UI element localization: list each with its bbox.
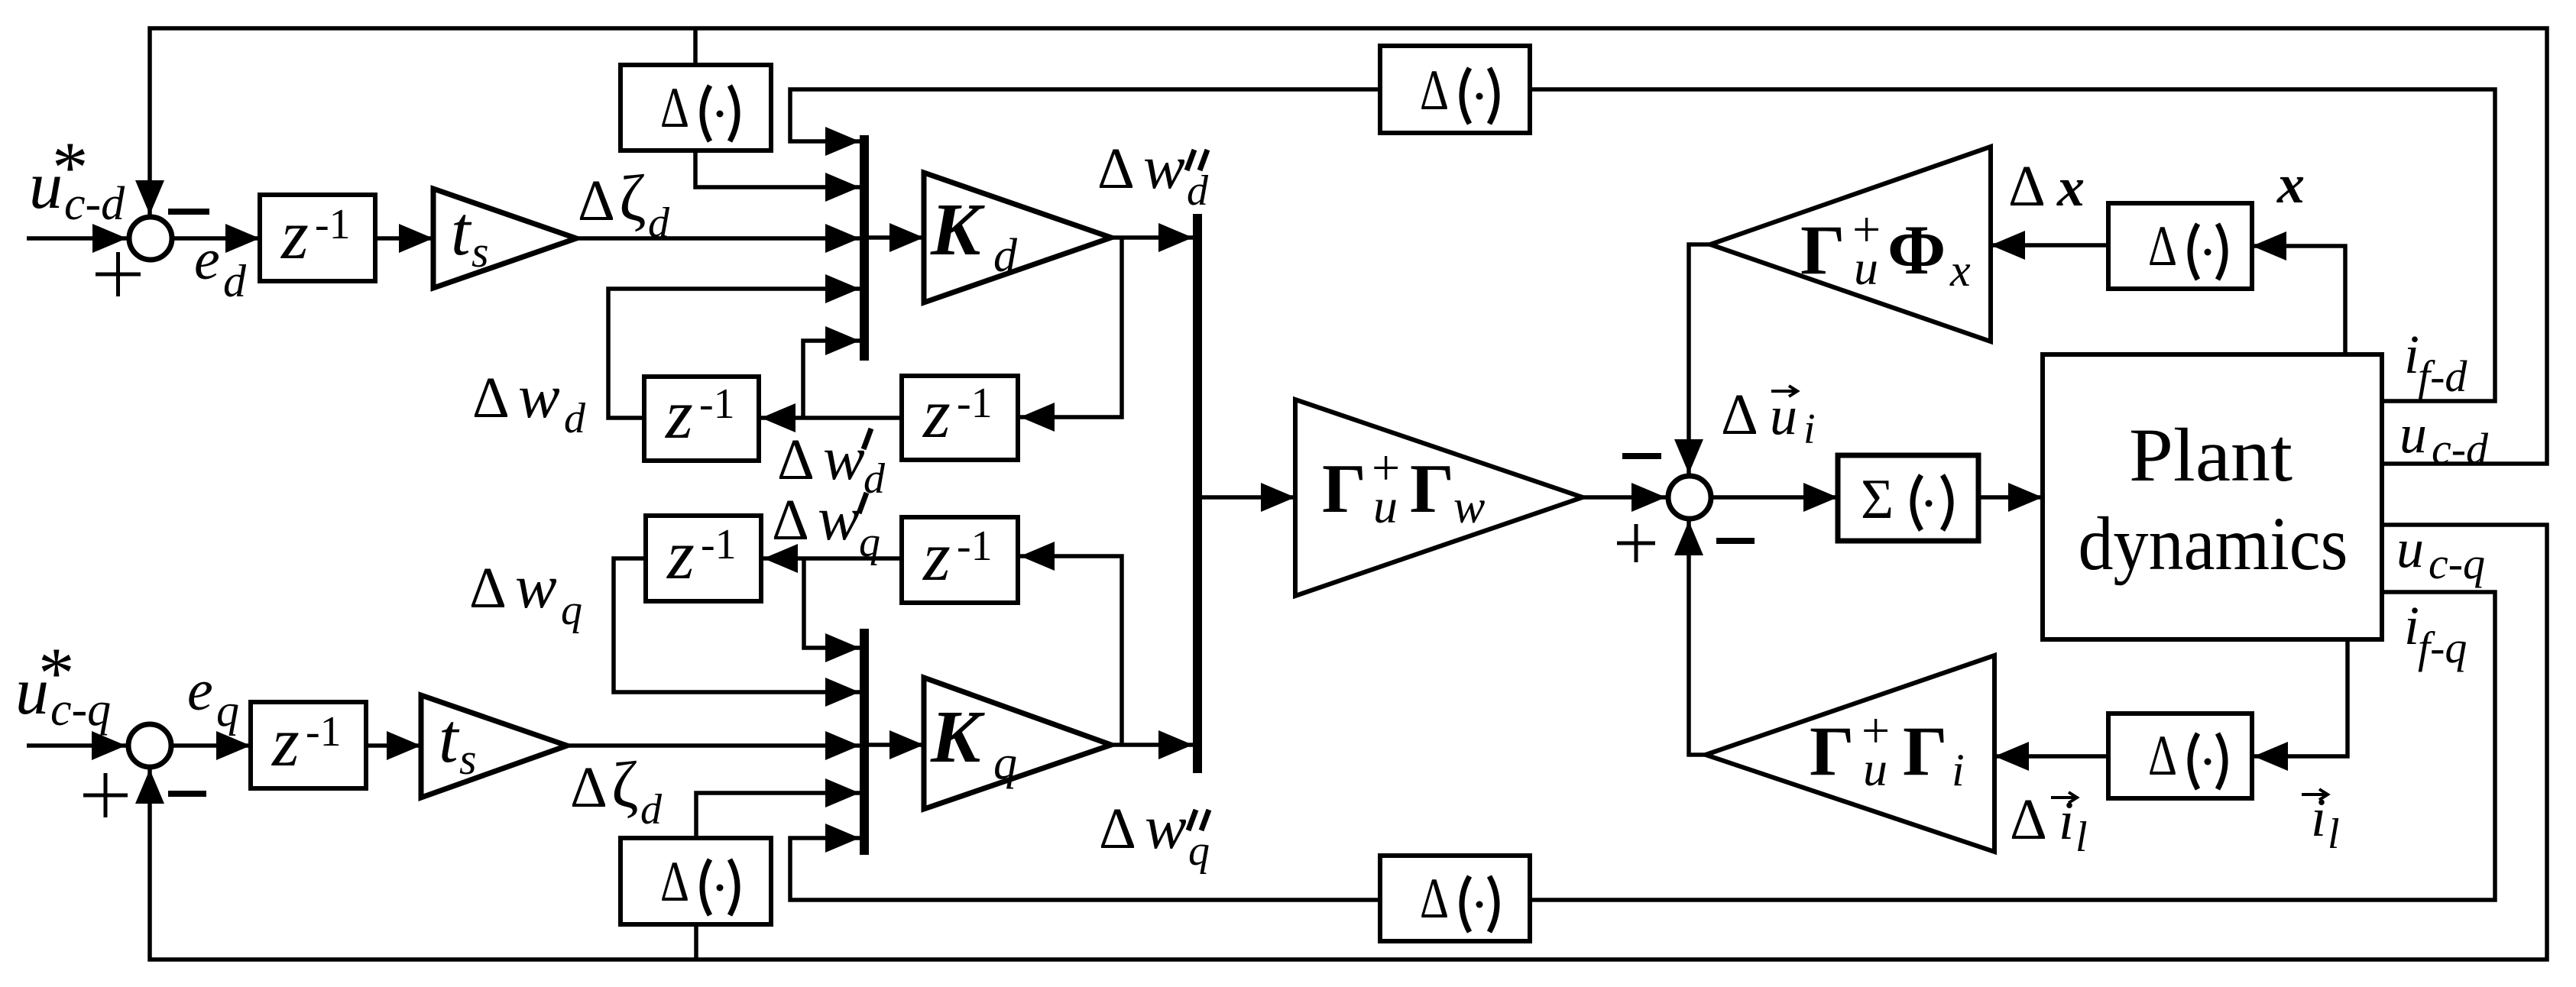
svg-text:d: d [640,786,663,833]
svg-text:Γ: Γ [1810,712,1855,790]
summing junction S3 [1668,476,1711,519]
wire bus3 to Kq [869,743,924,747]
svg-text:z: z [922,517,951,595]
svg-text:u: u [2396,518,2424,579]
svg-text:Γ: Γ [1322,450,1366,527]
wire i_l from plant bottom to D4 [2254,639,2348,756]
wire Phi-x output down to S3 carrying delta-x [1689,244,1710,474]
wire input u*c-q [27,743,126,748]
node bus1 top mixing bar [860,135,869,361]
gain Kd [924,173,1111,303]
svg-text:z: z [664,375,693,453]
svg-text:-1: -1 [701,521,737,568]
label i_f-d [2404,324,2467,401]
svg-text:Δ: Δ [660,850,689,914]
svg-text:i: i [2404,595,2419,656]
svg-text:w: w [518,361,560,431]
svg-text:q: q [859,519,880,566]
svg-text:Δ: Δ [1097,137,1135,201]
label delta-w-q [469,552,582,634]
svg-text:u: u [1373,479,1398,533]
summing junction S2 [128,724,171,767]
wire junction of Z3 output up to bus1 carrying delta-w'-d [803,341,860,418]
svg-text:q: q [216,685,239,736]
svg-text:Δ: Δ [1420,59,1449,122]
svg-text:c-q: c-q [2429,539,2485,588]
label x from plant [2276,154,2305,215]
delta block D4 bottom-right [2108,714,2252,798]
svg-text:s: s [459,734,477,784]
label i_f-q [2404,595,2467,672]
label delta-w'-d [777,423,886,503]
svg-text:l: l [2328,811,2340,858]
wire Z1 to T1 [375,236,433,241]
svg-text:z: z [280,196,309,273]
wire Gamma-i output up to S3 carrying delta-i_l [1689,521,1706,755]
wire Z5 to Z4 [763,556,902,561]
svg-text:e: e [194,228,220,292]
svg-text:Δ: Δ [469,556,507,620]
svg-text:d: d [993,230,1018,282]
svg-text:q: q [1188,827,1210,875]
sign minus bottom at S3 [1716,538,1755,544]
svg-text:Δ: Δ [2008,154,2046,218]
svg-text:dynamics: dynamics [2079,501,2348,586]
svg-text:x: x [2056,157,2085,218]
label e_q [187,659,239,736]
svg-text:Δ: Δ [1721,383,1758,447]
label e_d [194,228,247,306]
wire T1 to bus1 carrying delta-zeta-d [576,236,860,241]
svg-text:d: d [648,199,670,247]
wire D2 to bus1 [790,89,1380,141]
svg-text:x: x [2276,154,2305,215]
svg-text:u: u [1854,241,1878,295]
wire D4 to Gamma-i triangle [1994,754,2108,759]
wire Kq feedback up to Z5 [1020,556,1122,745]
svg-text:t: t [439,699,460,777]
wire D1 to bus1 [695,150,860,187]
sign minus top at S3 [1622,453,1661,459]
svg-text:-1: -1 [957,380,993,427]
svg-text:c-q: c-q [50,684,111,736]
svg-text:Φ: Φ [1887,211,1946,289]
label delta-w-d [472,361,586,442]
svg-text:ζ: ζ [619,161,646,235]
svg-text:s: s [471,227,489,277]
delta block D1 top-left [621,65,771,150]
wire u_c-d feedback from plant to S1 [150,28,2547,464]
svg-text:u: u [2399,403,2427,464]
svg-text:Γ: Γ [1800,211,1845,289]
svg-text:Δ: Δ [660,76,689,140]
wire tap from bottom feedback into D6 [694,924,698,958]
svg-text:Δ: Δ [472,366,510,430]
wire Z3 to Z2 [761,416,902,420]
label u*_c-q [15,633,111,736]
wire T2 to bus3 carrying delta-zeta-d lower [567,743,860,748]
wire Z6 to T2 [366,743,421,748]
svg-text:Δ: Δ [777,428,815,492]
wire Kq to bus2 carrying delta-w''-q [1111,743,1193,747]
delay block Z2 z^-1 [644,375,759,461]
svg-text:f-q: f-q [2418,623,2467,672]
label u*_c-d [29,127,125,230]
label delta-w'-q [772,484,880,566]
sign plus at S2 [83,773,128,817]
label delta-u_i vector [1721,383,1816,453]
gain T1 t_s [433,189,576,288]
svg-text:Δ: Δ [1420,867,1449,930]
svg-text:Plant: Plant [2129,413,2292,497]
svg-text:-1: -1 [699,380,735,428]
delay block Z1 z^-1 [260,195,375,281]
wire bus1 to Kd [869,235,924,240]
svg-text:ζ: ζ [611,748,639,821]
svg-text:w: w [515,552,557,621]
svg-text:t: t [451,192,472,270]
delay block Z6 z^-1 [251,702,366,788]
svg-text:w: w [1145,792,1187,862]
delta block D5 bottom-center [1380,856,1530,941]
svg-text:w: w [1143,132,1185,202]
svg-text:Δ: Δ [2148,724,2177,788]
svg-text:x: x [1949,245,1971,296]
svg-text:c-d: c-d [2432,424,2489,474]
label delta-zeta-d lower [570,748,663,833]
svg-text:d: d [1187,167,1209,215]
delta block D3 mid-right [2108,203,2252,289]
svg-text:-1: -1 [315,201,351,248]
svg-text:K: K [930,696,985,778]
svg-text:d: d [223,256,247,306]
svg-text:q: q [561,587,582,634]
node bus2 center bar [1193,214,1202,773]
svg-text:u: u [1863,742,1887,796]
gain T2 t_s [421,695,567,798]
wire D3 to Phi-x [1991,243,2108,248]
svg-text:Δ: Δ [1099,797,1136,861]
label u_c-d [2399,403,2489,474]
node bus3 bottom mixing bar [860,629,869,855]
sign plus at S3 [1617,524,1655,562]
svg-text:Σ: Σ [1861,468,1894,531]
svg-text:z: z [666,516,695,594]
svg-text:f-d: f-d [2418,351,2467,401]
wire bus2 to Gamma-w triangle [1202,495,1295,500]
svg-text:Δ: Δ [772,488,809,552]
wire i_f-q from plant to D5 [1530,592,2495,900]
block Plant dynamics [2043,354,2382,639]
gain Gamma_u+Gamma_i [1706,655,1994,852]
svg-text:-1: -1 [306,708,342,756]
wire i_f-d from plant to D2 [1530,89,2495,401]
delay block Z3 z^-1 [902,374,1018,460]
label i_l vector [2302,787,2340,858]
wire junction of Z5 output down to bus3 carrying delta-w'-q [804,558,860,648]
wire S3 to Sigma carrying delta-u_i [1713,495,1838,500]
wire D5 to bus3 [790,838,1380,900]
svg-text:c-d: c-d [64,178,125,230]
label delta-i_l vector [2010,788,2088,861]
svg-text:-1: -1 [957,523,993,570]
wire S2 to Z6 [173,743,251,748]
gain Gamma_u+Gamma_w [1295,400,1583,596]
svg-text:d: d [564,395,586,442]
label delta-w''-q [1099,792,1210,875]
svg-text:i: i [1952,745,1965,795]
label delta-x [2008,154,2085,218]
svg-text:Δ: Δ [570,756,608,820]
wire Z2 output up to bus1 carrying delta-w-d [608,289,860,418]
svg-text:w: w [1453,481,1485,533]
svg-text:i: i [2404,324,2419,385]
svg-text:K: K [930,189,985,271]
delay block Z5 z^-1 [902,517,1018,603]
svg-text:Γ: Γ [1903,712,1948,790]
wire Gamma-w to S3 [1583,495,1666,500]
svg-text:z: z [271,703,300,781]
wire Kd feedback down to Z3 [1020,238,1122,417]
wire Sigma to plant [1978,495,2043,500]
svg-text:Δ: Δ [578,169,615,233]
wire S1 to Z1 [174,236,260,241]
svg-text:z: z [922,374,951,452]
sign minus at S2 [168,791,206,797]
svg-text:l: l [2075,814,2088,861]
svg-text:w: w [818,484,860,553]
svg-text:Δ: Δ [2010,788,2047,852]
wire tap from top feedback into D1 [693,30,698,65]
block Sigma [1838,455,1978,541]
gain Kq [924,678,1111,809]
label delta-zeta-d upper [578,161,670,247]
wire input u*c-d [27,236,127,241]
gain Gamma_u+Phi_x [1710,147,1991,341]
delta block D2 top-right [1380,46,1530,133]
svg-text:Δ: Δ [2148,215,2177,278]
svg-text:w: w [823,423,865,493]
summing junction S1 [129,217,172,260]
wire Kd to bus2 carrying delta-w''-d [1111,235,1193,240]
wire Z4 output down to bus3 carrying delta-w-q [614,558,860,692]
label u_c-q [2396,518,2485,588]
svg-text:i: i [1803,406,1816,453]
svg-text:e: e [187,659,213,723]
label delta-w''-d [1097,132,1209,215]
svg-text:q: q [993,737,1017,789]
wire D6 to bus3 [696,793,860,838]
wire x from plant top to D3 [2252,246,2345,354]
delta block D6 bottom-left [621,838,771,924]
wire u_c-q feedback from plant to S2 [150,525,2547,959]
sign minus at S1 [168,209,209,215]
sign plus at S1 [96,252,141,296]
svg-text:Γ: Γ [1410,450,1454,527]
delay block Z4 z^-1 [646,516,761,601]
